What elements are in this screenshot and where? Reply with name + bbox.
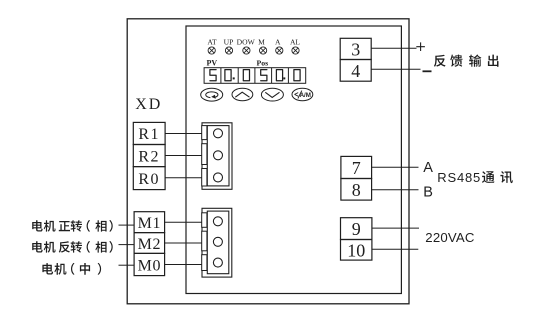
svg-text:PV: PV [207,58,218,67]
svg-text:Pos: Pos [257,58,269,67]
svg-text:8: 8 [352,180,361,200]
svg-text:AL: AL [290,37,300,46]
svg-text:B: B [423,184,433,200]
svg-text:220VAC: 220VAC [425,230,475,245]
svg-text:7: 7 [352,158,361,178]
svg-text:M: M [258,37,265,46]
svg-text:R2: R2 [138,148,160,165]
svg-text:AT: AT [207,37,217,46]
svg-text:9: 9 [352,219,361,239]
svg-text:A/M: A/M [300,92,311,99]
svg-text:A: A [275,37,281,46]
svg-text:RS485: RS485 [437,170,481,185]
svg-text:10: 10 [347,240,365,260]
svg-text:DOW: DOW [237,37,256,46]
svg-text:A: A [423,160,433,176]
svg-text:UP: UP [224,37,234,46]
svg-text:3: 3 [351,39,360,59]
svg-text:M2: M2 [138,236,161,253]
svg-text:4: 4 [351,61,360,81]
svg-text:XD: XD [135,96,162,113]
svg-text:M1: M1 [138,215,161,232]
svg-text:M0: M0 [138,257,161,274]
svg-text:R0: R0 [138,171,160,188]
svg-text:R1: R1 [138,126,160,143]
